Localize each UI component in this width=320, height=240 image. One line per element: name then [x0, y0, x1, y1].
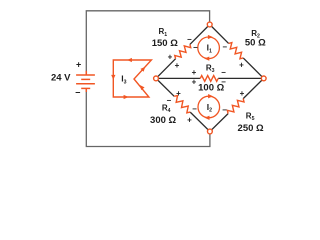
wire R5 to right node: [243, 78, 264, 98]
wire R1 to top node: [190, 25, 210, 45]
svg-text:150 Ω: 150 Ω: [152, 38, 178, 49]
wire left-node to R1: [156, 59, 176, 79]
resistor R4 zigzag: [174, 96, 190, 113]
mesh current I3 loop: [111, 58, 151, 99]
svg-text:+: +: [175, 61, 180, 70]
wire bottom node to R5: [210, 114, 228, 132]
svg-text:300 Ω: 300 Ω: [150, 115, 176, 126]
svg-text:−: −: [187, 35, 192, 44]
wire R2 to right node: [243, 58, 264, 79]
svg-text:24 V: 24 V: [51, 72, 71, 83]
svg-text:+: +: [239, 60, 244, 69]
resistor R1 zigzag: [175, 44, 191, 58]
svg-text:−: −: [75, 87, 80, 97]
resistor R3 zigzag: [200, 76, 218, 82]
wire top node to R2: [210, 25, 229, 44]
wire R3 to right node: [218, 77, 264, 79]
wire R4 to bottom node: [190, 112, 210, 131]
svg-text:−: −: [192, 105, 197, 114]
svg-text:+: +: [168, 52, 173, 61]
node left: [154, 76, 159, 81]
node right: [261, 76, 266, 81]
svg-text:50 Ω: 50 Ω: [245, 37, 266, 48]
svg-text:−: −: [222, 42, 227, 51]
mesh current I1 circle arrow: [198, 35, 220, 61]
svg-text:−: −: [222, 106, 227, 115]
svg-text:+: +: [187, 115, 192, 124]
svg-text:−: −: [193, 43, 198, 52]
svg-text:+: +: [192, 68, 197, 77]
node bottom: [208, 129, 213, 134]
wire left node to R4: [156, 78, 174, 96]
svg-text:−: −: [221, 77, 226, 86]
wire bottom loop: [86, 89, 210, 147]
resistor R5 zigzag: [227, 99, 244, 114]
svg-text:+: +: [192, 78, 197, 87]
svg-text:+: +: [176, 89, 181, 98]
wire top-left loop: [86, 11, 209, 74]
mesh current I2 circle arrow: [198, 94, 220, 120]
svg-text:+: +: [76, 59, 81, 69]
battery 24V plates: [76, 71, 95, 92]
svg-text:+: +: [240, 89, 245, 98]
node top: [207, 22, 212, 27]
svg-text:250 Ω: 250 Ω: [238, 123, 264, 134]
resistor R2 zigzag: [229, 43, 244, 59]
wire left node to R3: [156, 77, 200, 79]
svg-text:−: −: [166, 96, 171, 105]
svg-text:−: −: [221, 68, 226, 77]
